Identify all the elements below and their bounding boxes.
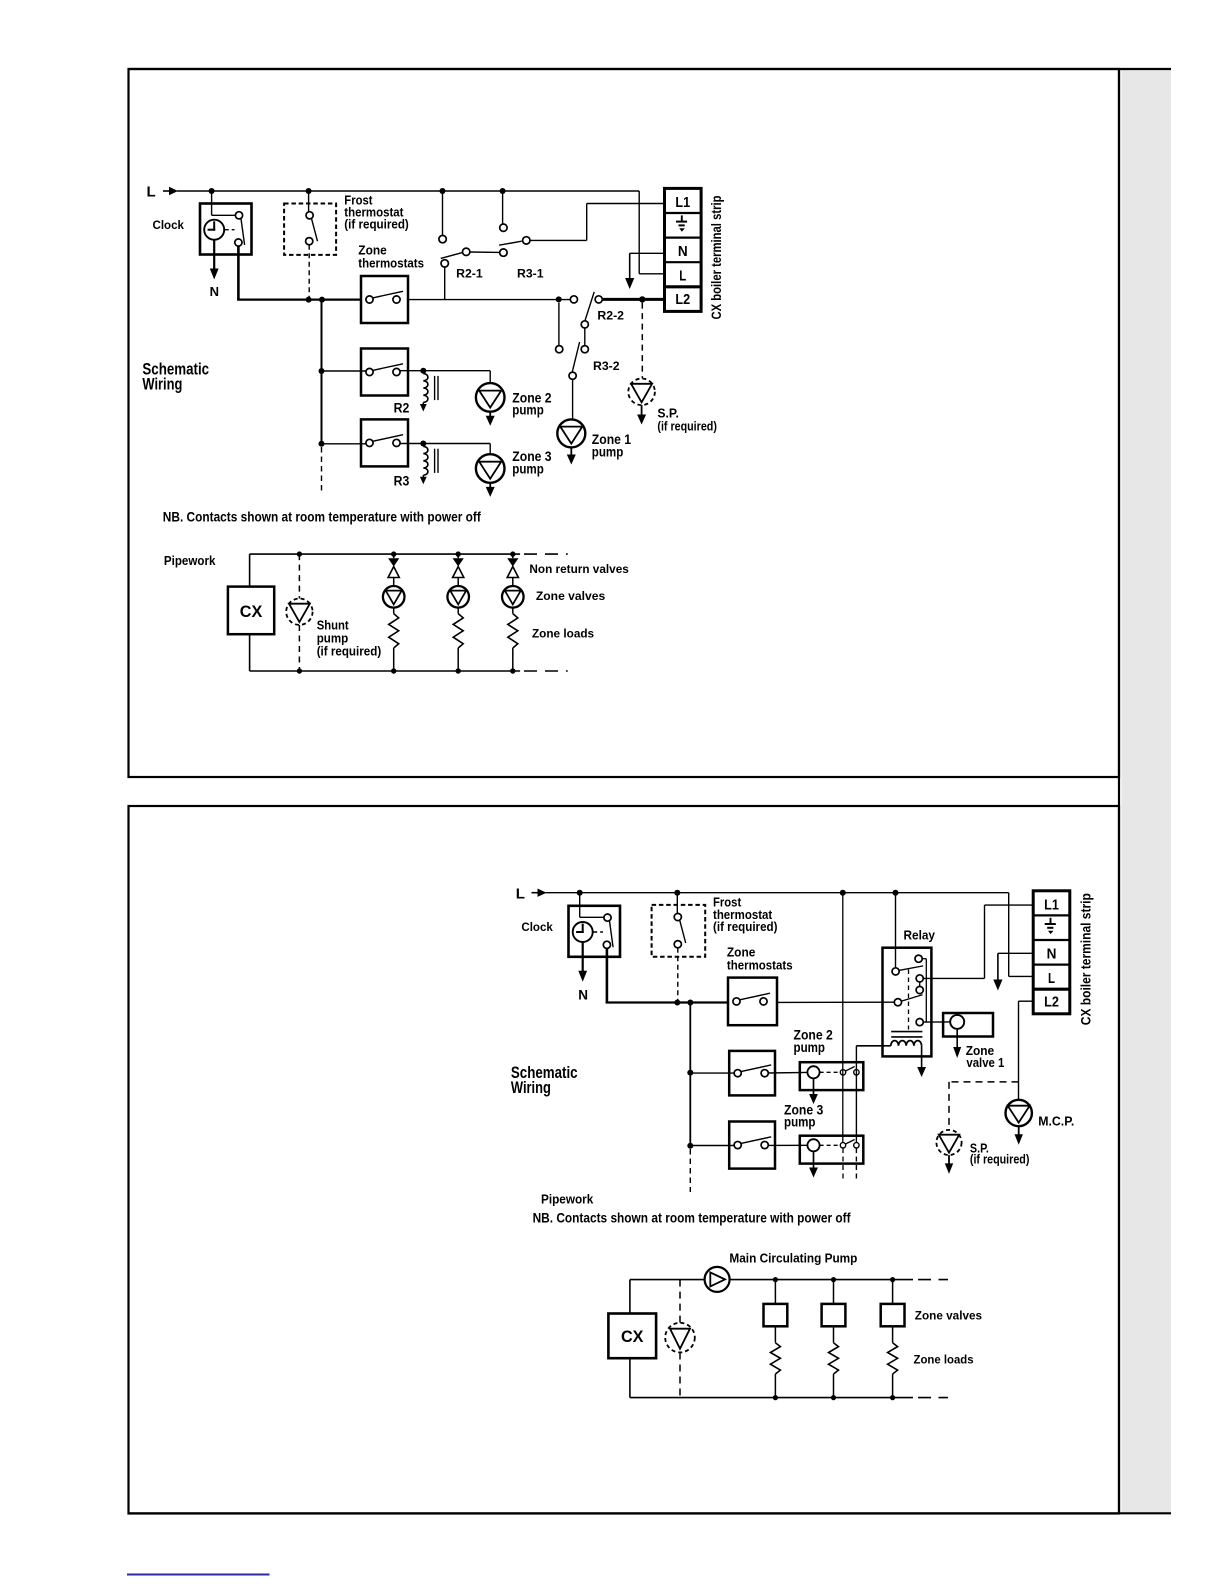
svg-text:(if required): (if required) xyxy=(317,643,382,658)
svg-text:Zone loads: Zone loads xyxy=(914,1352,974,1366)
svg-text:L1: L1 xyxy=(675,194,690,211)
svg-text:R3-2: R3-2 xyxy=(593,359,620,373)
svg-text:NB. Contacts shown at room tem: NB. Contacts shown at room temperature w… xyxy=(163,510,481,525)
svg-text:R3-1: R3-1 xyxy=(517,267,544,281)
svg-text:L2: L2 xyxy=(675,291,690,308)
svg-text:S.P.: S.P. xyxy=(657,406,679,421)
svg-text:CX boiler terminal strip: CX boiler terminal strip xyxy=(1078,893,1094,1025)
svg-text:L: L xyxy=(679,268,686,285)
svg-text:pump: pump xyxy=(592,443,624,459)
svg-text:CX: CX xyxy=(621,1328,644,1346)
svg-text:L: L xyxy=(516,886,525,903)
svg-text:N: N xyxy=(1047,946,1057,963)
svg-text:thermostats: thermostats xyxy=(358,256,424,271)
svg-text:Pipework: Pipework xyxy=(164,553,216,568)
svg-text:M.C.P.: M.C.P. xyxy=(1038,1113,1074,1128)
svg-text:N: N xyxy=(578,988,588,1003)
svg-text:Pipework: Pipework xyxy=(541,1191,594,1206)
svg-text:NB. Contacts shown at room tem: NB. Contacts shown at room temperature w… xyxy=(533,1211,851,1226)
svg-text:Wiring: Wiring xyxy=(142,376,182,394)
svg-text:L: L xyxy=(1048,970,1055,987)
svg-text:Zone loads: Zone loads xyxy=(532,627,594,641)
svg-text:L: L xyxy=(147,183,156,200)
svg-text:pump: pump xyxy=(794,1040,826,1055)
svg-text:R2: R2 xyxy=(394,401,410,416)
svg-text:Main Circulating Pump: Main Circulating Pump xyxy=(729,1251,857,1266)
svg-text:Zone valves: Zone valves xyxy=(915,1308,983,1322)
svg-text:R3: R3 xyxy=(394,473,410,488)
svg-text:CX: CX xyxy=(240,603,263,621)
svg-text:R2-1: R2-1 xyxy=(456,267,483,281)
svg-text:Wiring: Wiring xyxy=(511,1079,551,1097)
svg-text:R2-2: R2-2 xyxy=(597,309,624,323)
svg-text:pump: pump xyxy=(784,1115,816,1130)
svg-text:Non return valves: Non return valves xyxy=(529,562,629,576)
svg-text:N: N xyxy=(210,284,219,299)
svg-text:(if required): (if required) xyxy=(657,420,717,434)
svg-text:pump: pump xyxy=(512,460,544,476)
svg-text:Clock: Clock xyxy=(521,920,553,934)
svg-text:L2: L2 xyxy=(1044,993,1059,1010)
svg-text:thermostats: thermostats xyxy=(727,958,793,973)
svg-text:N: N xyxy=(678,243,688,260)
svg-text:(if required): (if required) xyxy=(970,1153,1030,1167)
svg-text:valve 1: valve 1 xyxy=(966,1055,1004,1070)
svg-text:(if required): (if required) xyxy=(344,217,409,232)
svg-text:Zone valves: Zone valves xyxy=(536,589,606,603)
svg-text:Relay: Relay xyxy=(904,927,936,942)
svg-text:L1: L1 xyxy=(1044,896,1059,913)
svg-text:pump: pump xyxy=(512,401,544,417)
svg-text:CX boiler terminal strip: CX boiler terminal strip xyxy=(708,196,724,320)
svg-text:(if required): (if required) xyxy=(713,919,778,934)
svg-text:Clock: Clock xyxy=(153,218,185,232)
